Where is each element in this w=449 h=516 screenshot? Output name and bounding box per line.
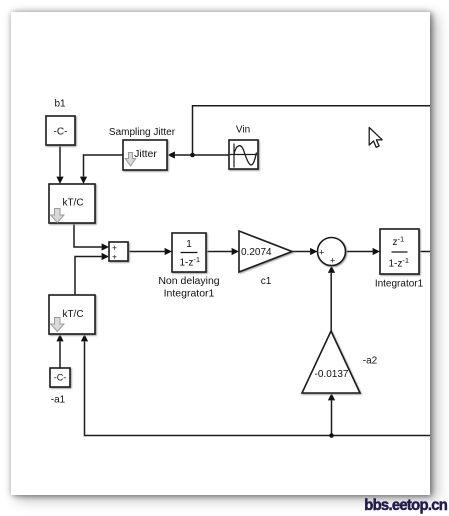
arrowhead into kT/C from b1 — [56, 177, 63, 184]
svg-text:-a1: -a1 — [51, 395, 66, 406]
block Sampling Jitter — [123, 140, 167, 170]
arrowhead into gain -a2 — [328, 393, 335, 400]
wire Integrator1 output — [419, 251, 430, 253]
wire kT/C to sum input1 — [74, 223, 102, 247]
wire bottom feedback — [85, 342, 431, 436]
svg-text:+: + — [319, 248, 324, 258]
wire -a1 to kT/C1 — [59, 342, 61, 369]
arrowhead into sum circle left — [310, 248, 317, 255]
mouse cursor — [369, 128, 382, 148]
source Vin — [229, 140, 258, 169]
svg-text:-C-: -C- — [54, 127, 68, 138]
arrowhead into sum input1 — [102, 243, 109, 250]
wire top feedback — [193, 106, 431, 155]
wire b1 to kT/C — [59, 145, 61, 177]
svg-text:Integrator1: Integrator1 — [375, 279, 424, 290]
arrowhead into kT/C1 bottom left — [56, 334, 63, 341]
arrowhead into sum circle bottom — [328, 266, 335, 273]
svg-text:kT/C: kT/C — [62, 198, 83, 209]
svg-text:+: + — [330, 256, 335, 266]
block Non delaying Integrator1 — [172, 233, 206, 272]
gain -a2 — [302, 331, 360, 393]
constant -a1 — [50, 368, 70, 387]
junction node near Vin — [190, 153, 195, 158]
arrowhead into kT/C1 bottom right — [81, 334, 88, 341]
watermark bbs.eetop.cn — [364, 497, 447, 515]
svg-text:b1: b1 — [54, 99, 66, 110]
wire Jitter output to kT/C — [84, 155, 124, 177]
svg-text:kT/C: kT/C — [62, 309, 83, 320]
sum circle — [318, 238, 346, 266]
svg-text:0.2074: 0.2074 — [241, 247, 272, 258]
svg-text:Sampling Jitter: Sampling Jitter — [109, 127, 176, 138]
block kT/C1 — [49, 295, 95, 334]
svg-text:1: 1 — [186, 239, 192, 250]
svg-text:+: + — [112, 252, 117, 262]
arrowhead into integrator — [165, 248, 172, 255]
svg-text:Jitter: Jitter — [134, 148, 157, 160]
svg-text:Non delaying: Non delaying — [158, 275, 219, 287]
wire Vin output — [193, 154, 230, 156]
constant b1 — [46, 116, 75, 145]
wire kT/C1 to sum input2 — [75, 257, 102, 296]
wire sum to integrator — [128, 251, 165, 253]
svg-text:-C-: -C- — [54, 373, 67, 383]
junction node bottom feedback — [329, 433, 334, 438]
svg-text:-0.0137: -0.0137 — [315, 369, 349, 380]
wire sum circle to Integrator1 — [346, 251, 373, 253]
wire -a2 to sum circle — [330, 273, 332, 331]
arrowhead into gain c1 — [232, 248, 239, 255]
svg-text:-a2: -a2 — [363, 356, 378, 367]
svg-text:Integrator1: Integrator1 — [164, 288, 215, 300]
block kT/C — [49, 184, 95, 223]
wire integrator to gain c1 — [206, 251, 232, 253]
gain c1 — [239, 231, 292, 272]
sum block — [109, 242, 128, 262]
svg-text:c1: c1 — [261, 276, 272, 287]
arrowhead into Integrator1 — [373, 248, 380, 255]
arrowhead into Jitter input — [168, 151, 175, 158]
arrowhead into kT/C from Jitter — [80, 177, 87, 184]
svg-text:Vin: Vin — [236, 125, 250, 136]
wire into Jitter input — [174, 154, 193, 156]
block Integrator1 — [380, 229, 419, 274]
arrowhead into sum input2 — [102, 253, 109, 260]
wire c1 to sum circle — [292, 251, 310, 253]
wire tap to gain -a2 — [331, 401, 333, 436]
